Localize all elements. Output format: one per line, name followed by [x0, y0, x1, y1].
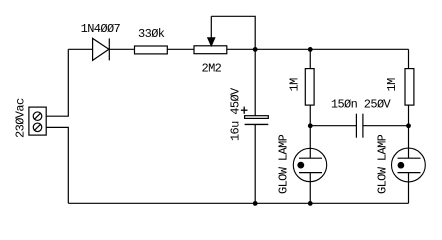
glow lamp LA1 — [293, 148, 326, 181]
potentiometer P1 2M2 — [194, 16, 227, 53]
resistor R2 1M (left) — [305, 69, 314, 106]
capacitor C1 16u 450V electrolytic — [245, 116, 269, 125]
wire node C to C2 — [310, 125, 356, 127]
wire LA1 to bottom rail — [309, 173, 311, 204]
svg-text:16u 45ØV: 16u 45ØV — [229, 87, 243, 141]
diode D1 1N4007 — [93, 38, 110, 60]
wire X1 pin2 to bottom rail — [46, 127, 68, 203]
junction on bottom rail at C1 — [253, 201, 258, 206]
wire top rail to diode — [68, 48, 92, 50]
wire C2 to node D — [363, 125, 409, 127]
junction node D (right lamp / C2) — [406, 123, 411, 128]
svg-text:1M: 1M — [287, 78, 301, 92]
terminal block X1 (mains input connector) — [29, 107, 46, 135]
svg-text:33Øk: 33Øk — [138, 27, 165, 41]
resistor R1 330k — [135, 46, 168, 54]
wire R3 to node D and into lamp LA2 — [408, 105, 410, 158]
junction on bottom rail at LA1 — [308, 201, 313, 206]
wire C1 to bottom rail — [254, 124, 256, 203]
plus polarity mark of C1 — [241, 107, 248, 114]
wire X1 pin1 to top rail — [46, 49, 68, 116]
resistor R3 1M (right) — [405, 69, 414, 106]
wire right column down to R3 — [408, 49, 410, 68]
svg-text:2M2: 2M2 — [202, 62, 222, 76]
wire bottom rail — [68, 202, 408, 204]
svg-text:15Øn 25ØV: 15Øn 25ØV — [331, 98, 392, 112]
wire R2 to node C and into lamp LA1 — [309, 105, 311, 158]
wire diode to R1 — [109, 48, 134, 50]
junction node C (left lamp / C2) — [308, 123, 313, 128]
svg-text:23ØVac: 23ØVac — [13, 98, 27, 138]
wire node A down to C1 — [254, 49, 256, 115]
capacitor C2 150n 250V — [356, 114, 363, 138]
wire R1 to P1 — [167, 48, 194, 50]
glow lamp LA2 — [392, 148, 426, 182]
wire P1 wiper loop to node A — [211, 16, 255, 49]
svg-text:1N4ØØ7: 1N4ØØ7 — [81, 22, 121, 36]
wire top rail right segment — [227, 48, 409, 50]
wire node B down to R2 — [309, 49, 311, 68]
junction node B (top of R2) — [308, 47, 313, 52]
wire LA2 to bottom rail — [408, 173, 410, 204]
svg-text:GLOW LAMP: GLOW LAMP — [375, 134, 389, 194]
svg-text:1M: 1M — [385, 78, 399, 92]
junction node A (wiper / C1 tap) — [253, 47, 258, 52]
svg-text:GLOW LAMP: GLOW LAMP — [276, 134, 290, 194]
